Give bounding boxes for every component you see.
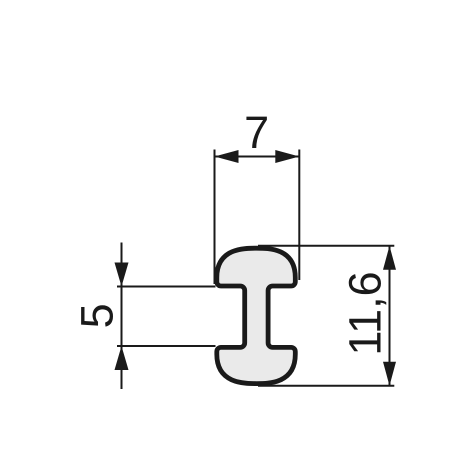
svg-text:5: 5 [71, 303, 122, 328]
arrowhead bottom of dimension 11,6 (points down) [383, 362, 396, 386]
extension line right of dimension 7 [298, 150, 300, 281]
extension line top of dimension 11,6 [258, 245, 394, 247]
svg-text:11,6: 11,6 [340, 271, 391, 355]
arrowhead left of dimension 7 [215, 150, 239, 163]
dimension line 7 [215, 156, 300, 158]
profile cross-section (H-shaped gasket) [217, 248, 295, 383]
arrowhead lower of dimension 5 (points up) [115, 346, 129, 370]
extension line bottom of dimension 11,6 [258, 385, 394, 387]
svg-text:7: 7 [244, 107, 269, 158]
arrowhead upper of dimension 5 (points down) [115, 263, 129, 287]
extension line left of dimension 7 [214, 150, 216, 285]
extension line bottom of dimension 5 [117, 345, 216, 347]
arrowhead right of dimension 7 [275, 150, 299, 163]
dimension line 5 [121, 243, 123, 390]
extension line top of dimension 5 [117, 286, 216, 288]
arrowhead top of dimension 11,6 (points up) [383, 246, 396, 270]
dimension line 11,6 [389, 246, 391, 386]
